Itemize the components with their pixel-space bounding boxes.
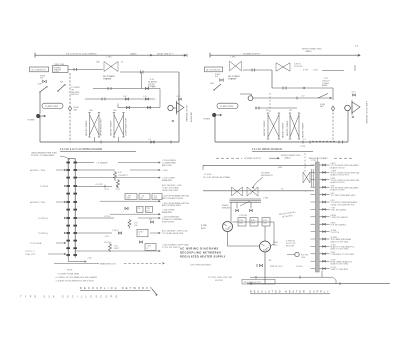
svg-text:ALTERN 2, TRIG: ALTERN 2, TRIG bbox=[30, 201, 46, 204]
svg-text:CABLE: CABLE bbox=[130, 52, 137, 55]
svg-text:V GY PLS: V GY PLS bbox=[331, 232, 340, 234]
svg-text:3 BLK TO GND BUS: 3 BLK TO GND BUS bbox=[331, 269, 349, 271]
svg-text:V601: V601 bbox=[113, 110, 117, 112]
svg-text:TK PLS AND DELAY LINE: TK PLS AND DELAY LINE bbox=[162, 232, 184, 235]
svg-text:A SEL TO CRT GRID: A SEL TO CRT GRID bbox=[331, 248, 349, 251]
svg-text:V RD TRG GATE 2: V RD TRG GATE 2 bbox=[331, 209, 347, 212]
svg-text:THRU LINE: THRU LINE bbox=[54, 64, 65, 66]
svg-text:! LOCATED ON TKS REAR HDDL HP: ! LOCATED ON TKS REAR HDDL HPR 2 HDDR bbox=[55, 279, 95, 282]
svg-text:SW: SW bbox=[60, 82, 63, 84]
svg-text:* LOCATED ON BAL HEAD: * LOCATED ON BAL HEAD bbox=[57, 273, 80, 276]
svg-text:TO AMPLIFIER: TO AMPLIFIER bbox=[220, 105, 234, 108]
svg-text:CORD: CORD bbox=[54, 71, 60, 73]
svg-text:47: 47 bbox=[139, 234, 141, 236]
svg-text:STRIP UPPER: STRIP UPPER bbox=[162, 221, 175, 223]
svg-text:DECOUPLING NETWORKS: DECOUPLING NETWORKS bbox=[180, 252, 221, 255]
svg-text:6AL5: 6AL5 bbox=[273, 243, 277, 246]
svg-text:TO 2 RNY PLATE AND GRID: TO 2 RNY PLATE AND GRID bbox=[331, 194, 356, 197]
svg-text:L TRK 33K: L TRK 33K bbox=[239, 215, 248, 217]
svg-text:V600: V600 bbox=[89, 110, 93, 112]
svg-text:REGULATED HEATER SUPPLY: REGULATED HEATER SUPPLY bbox=[180, 256, 226, 259]
svg-text:HEATER TRANSF: HEATER TRANSF bbox=[263, 120, 266, 136]
svg-text:AMPL SCREEN GRIDS: AMPL SCREEN GRIDS bbox=[162, 204, 182, 207]
svg-text:POWER SUPPLY: POWER SUPPLY bbox=[244, 158, 262, 160]
svg-text:CRLIN 2 RY SUPPORT PLS: CRLIN 2 RY SUPPORT PLS bbox=[331, 204, 356, 206]
svg-text:TO AMPLIFIER: TO AMPLIFIER bbox=[45, 105, 59, 108]
svg-text:ROUTED TO REAR PANEL: ROUTED TO REAR PANEL bbox=[31, 154, 54, 157]
svg-text:HEATER TRANSF: HEATER TRANSF bbox=[85, 120, 88, 136]
svg-text:C 62: C 62 bbox=[301, 96, 305, 98]
svg-text:LOWER BEAM VERT: LOWER BEAM VERT bbox=[125, 117, 128, 136]
svg-text:A BLK TO CRT GRID: A BLK TO CRT GRID bbox=[331, 240, 350, 243]
svg-text:BLAN TO 2 RNY: BLAN TO 2 RNY bbox=[331, 189, 346, 192]
svg-text:+150: +150 bbox=[351, 92, 355, 94]
svg-text:PLS TRG GATE B: PLS TRG GATE B bbox=[331, 223, 347, 226]
svg-text:TO V447, V343, V347, V34: TO V447, V343, V347, V34 bbox=[208, 277, 233, 279]
svg-text:TO PIN 3Q: TO PIN 3Q bbox=[38, 233, 48, 235]
svg-text:C 6: C 6 bbox=[303, 139, 306, 141]
svg-text:36.5 V AC WINDING AT NORMAL: 36.5 V AC WINDING AT NORMAL bbox=[203, 176, 230, 179]
svg-text:TRANSF: TRANSF bbox=[103, 78, 112, 81]
svg-text:TR PLS: TR PLS bbox=[296, 266, 303, 268]
svg-text:BLAN TO V154Y: BLAN TO V154Y bbox=[331, 166, 346, 169]
svg-text:GL CONTROLS: GL CONTROLS bbox=[31, 70, 46, 72]
svg-text:THERMAL CUTOUT AMPL: THERMAL CUTOUT AMPL bbox=[366, 101, 369, 124]
svg-text:C14: C14 bbox=[149, 219, 152, 221]
svg-text:DELAY LINE 6 P T: DELAY LINE 6 P T bbox=[157, 52, 174, 55]
svg-text:TYPE 536 OSCILLOSCOPE: TYPE 536 OSCILLOSCOPE bbox=[20, 296, 121, 298]
svg-text:+ LOCATED ON CNTR REAR HDDL S: + LOCATED ON CNTR REAR HDDL SEE CHASSIS bbox=[55, 276, 98, 279]
svg-text:TO PIN 3Q: TO PIN 3Q bbox=[38, 218, 48, 220]
svg-text:C 62: C 62 bbox=[123, 96, 127, 98]
svg-text:HEATER TRANSF: HEATER TRANSF bbox=[282, 122, 285, 138]
svg-text:470K: 470K bbox=[146, 210, 150, 212]
svg-text:WINDING: WINDING bbox=[222, 207, 231, 209]
svg-text:MEASURING OUT: MEASURING OUT bbox=[100, 263, 117, 266]
svg-text:GROUNDED AT CRT: GROUNDED AT CRT bbox=[244, 281, 262, 284]
svg-text:HEATER TRANSF: HEATER TRANSF bbox=[286, 120, 289, 136]
svg-text:CABLE: CABLE bbox=[305, 50, 312, 53]
svg-text:47: 47 bbox=[147, 248, 149, 250]
svg-text:BLAN TO V154Y PLS: BLAN TO V154Y PLS bbox=[331, 174, 350, 177]
svg-text:+ B TRANSF: + B TRANSF bbox=[96, 162, 108, 165]
svg-text:DECOUPLING NETWORKS: DECOUPLING NETWORKS bbox=[80, 287, 154, 290]
svg-text:P.S. 6.3V FIL 117V AC WIRING: P.S. 6.3V FIL 117V AC WIRING bbox=[66, 52, 97, 55]
svg-text:HEATER TRANSF: HEATER TRANSF bbox=[110, 120, 113, 136]
svg-text:ALTERN +, TRIG: ALTERN +, TRIG bbox=[30, 169, 46, 172]
svg-text:3AG: 3AG bbox=[320, 105, 324, 108]
svg-text:GL CONTROLS: GL CONTROLS bbox=[206, 70, 221, 72]
svg-text:TO PLS CRT SUPPLY: TO PLS CRT SUPPLY bbox=[162, 247, 181, 249]
svg-text:6.3-V AC & 117-V AC WIRING D: 6.3-V AC & 117-V AC WIRING DIAGRAM bbox=[60, 148, 102, 151]
svg-text:CABLE: CABLE bbox=[284, 156, 291, 159]
svg-text:AMPL PINS AND PLATES: AMPL PINS AND PLATES bbox=[162, 197, 184, 200]
svg-text:1 TRK TRG GATE A: 1 TRK TRG GATE A bbox=[331, 216, 349, 219]
svg-text:POWER: POWER bbox=[28, 120, 36, 122]
svg-text:SWITCH: SWITCH bbox=[71, 94, 79, 96]
svg-text:V52: V52 bbox=[266, 110, 269, 112]
svg-text:L TR C6: L TR C6 bbox=[104, 216, 110, 218]
svg-text:1.5K INPUT: 1.5K INPUT bbox=[118, 175, 128, 177]
svg-text:REGULATED HEATER SUPPLY: REGULATED HEATER SUPPLY bbox=[250, 290, 331, 293]
svg-text:REG HTR: REG HTR bbox=[286, 246, 295, 248]
svg-text:+ 350V: + 350V bbox=[162, 170, 169, 172]
svg-text:UPPER BEAM VERT: UPPER BEAM VERT bbox=[100, 117, 103, 136]
svg-text:4 TR PLS: 4 TR PLS bbox=[104, 242, 112, 244]
svg-text:L TRK: L TRK bbox=[230, 57, 236, 59]
svg-text:L TRK: L TRK bbox=[263, 198, 269, 200]
svg-text:TO PIN 4: TO PIN 4 bbox=[40, 186, 49, 188]
svg-text:C 63: C 63 bbox=[143, 96, 147, 98]
svg-text:17 V AC: 17 V AC bbox=[204, 173, 212, 176]
svg-text:L TRK 2: L TRK 2 bbox=[112, 230, 118, 232]
svg-text:AMPL PINS: AMPL PINS bbox=[162, 164, 172, 167]
svg-text:BEAM: BEAM bbox=[322, 84, 328, 87]
svg-text:+ B C6N: + B C6N bbox=[95, 184, 103, 186]
svg-text:TR 2: TR 2 bbox=[154, 195, 158, 197]
svg-text:3: 3 bbox=[305, 191, 306, 193]
svg-text:GRN: GRN bbox=[278, 167, 283, 169]
svg-text:BEAM AMPL: BEAM AMPL bbox=[162, 179, 172, 182]
svg-text:TO TK SW A: TO TK SW A bbox=[30, 242, 42, 245]
svg-text:+ TR 2: + TR 2 bbox=[104, 236, 109, 238]
svg-text:4 TRK: 4 TRK bbox=[303, 70, 309, 72]
svg-text:HEATER TRANSF: HEATER TRANSF bbox=[302, 122, 305, 138]
svg-text:V53: V53 bbox=[289, 110, 292, 112]
svg-text:BLAN TO V154Y: BLAN TO V154Y bbox=[331, 181, 346, 184]
svg-text:BLAN TO CRT GRID: BLAN TO CRT GRID bbox=[331, 263, 349, 266]
svg-text:DELAY LINE TERM: DELAY LINE TERM bbox=[162, 189, 178, 192]
svg-text:C6: C6 bbox=[281, 189, 283, 191]
svg-text:2 TRK A BLK TO CRT GRID: 2 TRK A BLK TO CRT GRID bbox=[331, 253, 355, 256]
svg-text:TX A+ TR 2: TX A+ TR 2 bbox=[25, 253, 36, 256]
svg-text:V4 HTRS: V4 HTRS bbox=[215, 280, 223, 282]
svg-text:L TR 2: L TR 2 bbox=[104, 189, 109, 191]
svg-text:LTR2: LTR2 bbox=[146, 208, 150, 210]
svg-text:AC WIRING DIAGRAMS: AC WIRING DIAGRAMS bbox=[180, 248, 219, 251]
svg-text:POWER SUPPLY: POWER SUPPLY bbox=[243, 53, 261, 55]
svg-text:PWR TR 2 PLS: PWR TR 2 PLS bbox=[270, 266, 283, 268]
svg-text:INPUT: INPUT bbox=[114, 248, 119, 250]
svg-text:3AG: 3AG bbox=[74, 108, 78, 111]
svg-text:POWER: POWER bbox=[203, 119, 211, 121]
svg-text:TRANSF: TRANSF bbox=[228, 78, 237, 81]
svg-text:2 TRK: 2 TRK bbox=[300, 146, 306, 148]
svg-text:+ TR 2: + TR 2 bbox=[115, 189, 120, 191]
svg-text:THERMAL CUTOUT: THERMAL CUTOUT bbox=[186, 104, 189, 122]
svg-text:REGULATOR: REGULATOR bbox=[261, 174, 273, 177]
svg-text:6.3-V AC WIRING DIAGRAM: 6.3-V AC WIRING DIAGRAM bbox=[252, 148, 282, 151]
svg-text:+ 350: + 350 bbox=[87, 258, 92, 260]
svg-text:BEAM AMPL: BEAM AMPL bbox=[162, 211, 172, 214]
svg-text:( YEL THROUGH SEE ): ( YEL THROUGH SEE ) bbox=[190, 265, 212, 267]
svg-text:L TRK: L TRK bbox=[106, 57, 112, 59]
svg-text:1 BLK: 1 BLK bbox=[313, 70, 319, 72]
svg-text:+150: +150 bbox=[176, 96, 180, 98]
svg-text:6 TRK: 6 TRK bbox=[201, 225, 207, 227]
svg-text:C 6: C 6 bbox=[148, 139, 151, 141]
svg-text:CRT HTR: CRT HTR bbox=[294, 66, 303, 68]
svg-text:AMPLIFIER: AMPLIFIER bbox=[190, 111, 193, 122]
svg-text:NOTE :: NOTE : bbox=[67, 270, 74, 272]
